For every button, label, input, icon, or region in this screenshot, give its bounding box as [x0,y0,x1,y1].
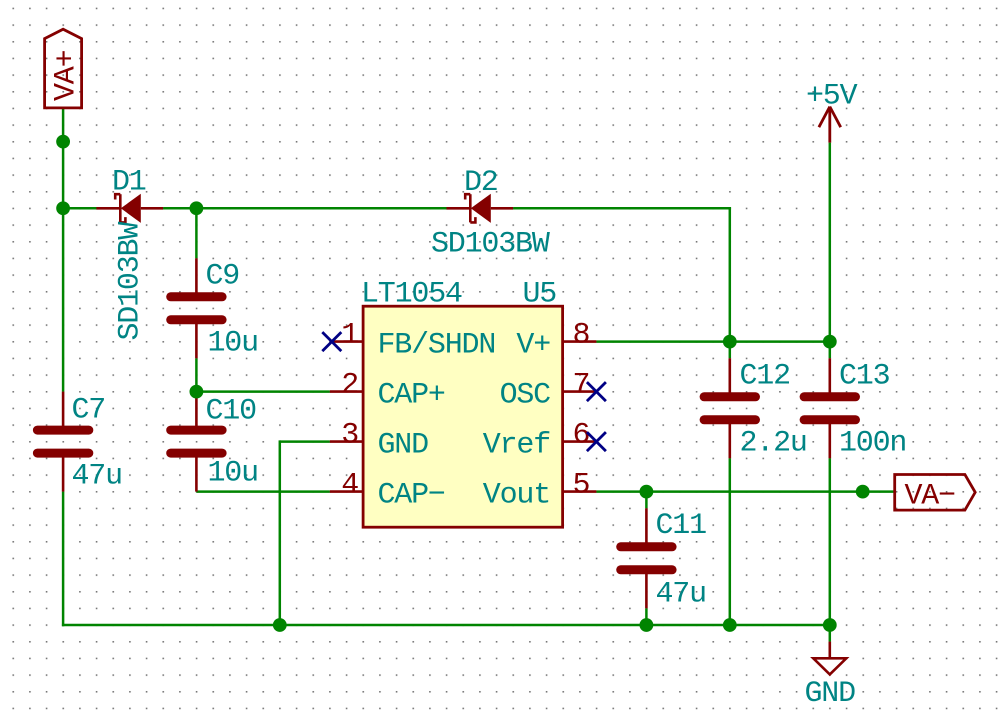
capacitor C13 [804,358,855,458]
svg-text:2.2u: 2.2u [740,427,807,461]
svg-text:CAP−: CAP− [378,479,445,513]
wire D2 to top right corner [513,207,731,210]
wire +5V down to C13 [829,143,832,359]
wire left vertical C7 bottom to rail [62,492,65,627]
svg-text:U5: U5 [523,278,557,312]
svg-text:SD103BW: SD103BW [114,222,148,341]
junction Vout C11 node [640,485,654,499]
pin 7 OSC [500,369,597,413]
svg-text:GND: GND [378,429,429,463]
svg-text:100n: 100n [839,427,906,461]
junction C9/C10 pin2 node [190,385,204,399]
svg-text:47u: 47u [72,460,122,494]
wire top right corner down to pin8 node [729,207,732,358]
svg-text:GND: GND [805,677,856,711]
svg-text:D1: D1 [112,166,146,200]
wire pin8 to C13 node [596,340,829,343]
wire C13 bottom to rail [829,458,832,625]
junction left D1 node [56,201,70,215]
svg-text:Vref: Vref [483,429,550,463]
wire Vout row [596,490,894,493]
svg-text:VA−: VA− [905,480,956,514]
no-connect pin 1 [322,332,341,351]
capacitor C10 [171,392,222,492]
svg-text:4: 4 [341,469,358,503]
junction rail pin3 node [273,618,287,632]
pin 8 V+ [516,319,596,363]
no-connect pin 7 [587,382,606,401]
wire C12 bottom to rail [729,458,732,625]
svg-text:47u: 47u [656,578,706,612]
svg-text:1: 1 [341,319,358,353]
diode D2 [447,194,514,223]
junction rail GND node [823,618,837,632]
pin 2 CAP+ [330,369,445,413]
svg-text:7: 7 [573,369,590,403]
svg-text:SD103BW: SD103BW [431,228,550,262]
capacitor C12 [704,358,755,458]
power flag VA+ [45,29,84,108]
wire C11 bottom to rail [645,608,648,625]
svg-text:D2: D2 [464,166,498,200]
junction +5V C13 node [823,335,837,349]
pin 6 Vref [483,419,597,463]
junction rail C11 node [640,618,654,632]
svg-text:10u: 10u [208,457,258,491]
svg-text:V+: V+ [516,329,550,363]
power symbol GND [805,625,856,711]
svg-text:C10: C10 [206,395,257,429]
svg-text:C7: C7 [72,394,106,428]
pin 5 Vout [483,469,597,513]
junction C9 top node [190,201,204,215]
svg-text:CAP+: CAP+ [378,379,445,413]
svg-text:10u: 10u [208,327,258,361]
svg-text:3: 3 [341,419,358,453]
wire D1 row left [63,207,96,210]
wire left vertical VA+ to C7 top [62,108,65,391]
junction pin8 C12 node [723,335,737,349]
wire C9 top node [195,208,198,258]
wire bottom rail [62,624,830,627]
svg-text:FB/SHDN: FB/SHDN [378,329,496,363]
capacitor C9 [171,258,222,358]
svg-text:C11: C11 [656,509,707,543]
junction Vout VA- node [856,485,870,499]
svg-text:C9: C9 [206,260,240,294]
junction rail C12 node [723,618,737,632]
svg-text:8: 8 [573,319,590,353]
svg-text:LT1054: LT1054 [361,278,462,312]
junction VA+ node [56,135,70,149]
wire pin3 down to rail [279,440,282,625]
wire D1 to D2 [163,207,446,210]
svg-text:2: 2 [341,369,358,403]
pin 4 CAP- [330,469,445,513]
svg-text:VA+: VA+ [50,50,84,101]
svg-text:+5V: +5V [806,80,858,114]
op-amp U5 LT1054 body [363,306,562,527]
global label VA- [895,475,976,514]
svg-text:C12: C12 [740,360,790,394]
svg-text:C13: C13 [839,360,890,394]
svg-text:5: 5 [573,469,590,503]
svg-text:OSC: OSC [500,379,551,413]
wire pin3 row [280,440,330,443]
svg-text:6: 6 [573,419,590,453]
wire C9 bottom to pin2 node [195,358,198,391]
power symbol +5V [806,80,858,143]
pin 3 GND [330,419,428,463]
svg-text:Vout: Vout [483,479,550,513]
capacitor C7 [37,392,88,492]
wire pin2 row [196,390,329,393]
capacitor C11 [621,508,672,608]
pin 1 FB/SHDN [330,319,495,363]
wire C11 top [645,492,648,509]
wire pin4 row [196,490,329,493]
diode D1 [96,194,163,223]
no-connect pin 6 [587,432,606,451]
